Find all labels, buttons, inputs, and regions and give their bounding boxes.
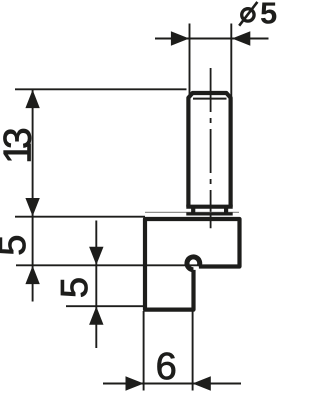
svg-text:6: 6	[156, 346, 177, 388]
arrow right 6 left	[126, 376, 144, 390]
svg-text:3: 3	[0, 127, 40, 149]
dimension line 6	[103, 383, 241, 385]
diameter symbol	[239, 2, 257, 26]
chamfer line pin top	[193, 98, 227, 100]
svg-text:5: 5	[54, 277, 96, 298]
extension line pin left	[189, 24, 191, 98]
dimension line 13 and 5 vertical	[32, 90, 34, 302]
relief groove circle	[187, 257, 200, 270]
centerline of pin	[210, 68, 212, 228]
arrow right diameter5 left	[171, 31, 189, 45]
pin neck right	[224, 207, 228, 214]
svg-text:5: 5	[0, 235, 34, 256]
svg-text:5: 5	[260, 0, 277, 31]
arrow left diameter5 right	[232, 31, 250, 45]
pin collar bottom edge	[186, 212, 232, 215]
pin bottom edge	[186, 205, 232, 209]
extension line pin right	[230, 24, 232, 98]
pin body outline	[188, 93, 230, 207]
arrow up 13 top	[25, 90, 39, 108]
extension line block top	[15, 216, 145, 218]
arrow down 13 bottom / 5 top	[25, 198, 39, 216]
dimension line 5 second vertical	[95, 221, 97, 349]
extension line pin top (13)	[15, 88, 187, 90]
dimension line diameter5	[155, 38, 269, 40]
extension line 6 right	[192, 311, 194, 391]
arrow down 5 second top	[89, 247, 103, 265]
pin neck left	[191, 207, 195, 214]
arrow up 5 first bottom	[25, 266, 39, 284]
arrow up 5 second bottom	[89, 306, 103, 324]
extension line block bottom	[66, 305, 145, 307]
block outline	[145, 219, 240, 310]
extension line notch level	[16, 264, 200, 266]
thin edge line across block	[145, 211, 239, 213]
arrow left 6 right	[193, 376, 211, 390]
extension line 6 left	[143, 311, 145, 391]
